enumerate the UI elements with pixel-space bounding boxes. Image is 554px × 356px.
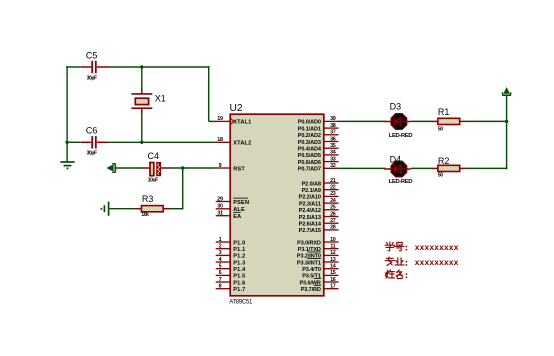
svg-text:P0.2/AD2: P0.2/AD2: [298, 133, 321, 139]
capacitor C5: [81, 50, 109, 73]
pin 37 (P0.2/AD2) of U2: [298, 130, 339, 140]
svg-text:19: 19: [217, 116, 223, 122]
svg-text:P2.6/A14: P2.6/A14: [299, 222, 322, 228]
svg-text:P1.7: P1.7: [233, 287, 245, 293]
pin 34 (P0.5/AD5) of U2: [298, 150, 339, 160]
ground (rotated, left of R3): [101, 202, 108, 216]
pin 27 (P2.6/A14) of U2: [299, 218, 339, 228]
svg-text:U2: U2: [230, 103, 243, 114]
pin 14 (P3.4/T0) of U2: [302, 264, 338, 274]
pin 21 (P2.0/A8) of U2: [302, 178, 339, 188]
svg-text:30: 30: [217, 204, 223, 210]
svg-text:P2.3/A11: P2.3/A11: [299, 201, 321, 207]
LED D3 (LED-RED): [384, 102, 411, 130]
resistor R3: [135, 194, 169, 212]
svg-text:50: 50: [438, 127, 443, 133]
svg-text:P2.7/A15: P2.7/A15: [299, 228, 321, 234]
svg-text:30pF: 30pF: [87, 150, 97, 156]
svg-text:4: 4: [219, 257, 222, 263]
svg-text:12: 12: [330, 250, 336, 256]
junction: R1 row to VCC rail (507,121): [505, 120, 508, 123]
svg-text:R2: R2: [438, 156, 450, 166]
pin 10 (P3.0/RXD) of U2: [297, 237, 338, 247]
svg-text:C6: C6: [86, 125, 98, 135]
ground (below left rail): [60, 162, 74, 168]
svg-text:P1.6: P1.6: [233, 280, 245, 286]
wire: P0.0 to D3: [338, 120, 385, 122]
svg-text:P0.1/AD1: P0.1/AD1: [298, 126, 321, 132]
svg-text:P0.6/AD6: P0.6/AD6: [298, 160, 321, 166]
pin 19 (XTAL1) of U2: [216, 116, 252, 126]
svg-text:P1.2: P1.2: [233, 254, 245, 260]
svg-text:21: 21: [330, 178, 336, 184]
svg-text:xxxxxxxxx: xxxxxxxxx: [415, 257, 459, 267]
crystal X1: [131, 93, 165, 114]
svg-text:R3: R3: [142, 194, 154, 204]
svg-text:30pF: 30pF: [87, 76, 97, 82]
pin 7 (P1.6) of U2: [216, 277, 246, 287]
svg-text:P1.3: P1.3: [233, 260, 245, 266]
junction: RST net to R3 branch (183,168): [181, 166, 184, 169]
pin 17 (P3.7/RD) of U2: [301, 284, 339, 294]
node label: major line (zhuan ye:): [385, 257, 407, 265]
junction: XTAL2 net at crystal branch (142,142): [140, 141, 143, 144]
pin 1 (P1.0) of U2: [216, 237, 246, 247]
node label: name line (xing ming:): [385, 270, 407, 279]
power terminal (left arrow) on C4: [107, 163, 115, 172]
wire: RST branch down to R3: [169, 168, 183, 210]
svg-text:27: 27: [330, 218, 336, 224]
wire: VCC arrow to C4: [115, 167, 144, 169]
pin 33 (P0.6/AD6) of U2: [298, 156, 339, 166]
wire: C6 / XTAL2 net: [67, 141, 216, 143]
wire: left vertical rail x=67: [66, 66, 68, 162]
svg-text:5: 5: [219, 264, 222, 270]
pin 24 (P2.3/A11) of U2: [299, 198, 339, 208]
svg-text:28: 28: [330, 225, 336, 231]
svg-text:17: 17: [330, 284, 336, 290]
svg-text:D3: D3: [390, 102, 402, 112]
wire: R1 to VCC rail: [466, 120, 508, 122]
pin 8 (P1.7) of U2: [216, 284, 246, 294]
svg-text:P3.3/INT1: P3.3/INT1: [297, 260, 321, 266]
pin 22 (P2.1/A9) of U2: [302, 185, 339, 195]
svg-text:RST: RST: [233, 166, 245, 172]
pin 30 (ALE) of U2: [216, 204, 245, 214]
pin 3 (P1.2) of U2: [216, 250, 246, 260]
pin 2 (P1.1) of U2: [216, 244, 246, 254]
pin 31 (EA) of U2: [216, 211, 242, 221]
pin 35 (P0.4/AD4) of U2: [298, 143, 339, 153]
svg-text:P0.3/AD3: P0.3/AD3: [298, 140, 321, 146]
svg-text:P3.7/RD: P3.7/RD: [301, 287, 321, 293]
svg-text:X1: X1: [155, 93, 166, 103]
wire: P0.7 to D4: [338, 167, 385, 169]
pin 18 (XTAL2) of U2: [216, 137, 252, 147]
pin 28 (P2.7/A15) of U2: [299, 225, 339, 235]
svg-text:P2.2/A10: P2.2/A10: [299, 195, 321, 201]
svg-text:P2.5/A13: P2.5/A13: [299, 215, 321, 221]
svg-text:P3.4/T0: P3.4/T0: [302, 267, 321, 273]
svg-text:50: 50: [438, 173, 443, 179]
wire: VCC vertical rail: [506, 95, 508, 169]
svg-text:P0.5/AD5: P0.5/AD5: [298, 153, 321, 159]
pin 4 (P1.3) of U2: [216, 257, 246, 267]
svg-text:31: 31: [217, 211, 223, 217]
svg-text:23: 23: [330, 191, 336, 197]
pin 38 (P0.1/AD1) of U2: [298, 123, 339, 132]
pin 26 (P2.5/A13) of U2: [299, 211, 339, 221]
svg-text:P2.1/A9: P2.1/A9: [302, 188, 321, 194]
wire: D3 to R1: [411, 120, 432, 122]
svg-text:1: 1: [219, 237, 222, 243]
svg-text:35: 35: [330, 143, 336, 149]
svg-text:10k: 10k: [141, 212, 149, 218]
pin 36 (P0.3/AD3) of U2: [298, 136, 339, 146]
svg-text:D4: D4: [390, 154, 402, 164]
svg-text:R1: R1: [438, 107, 450, 117]
svg-text:16: 16: [330, 277, 336, 283]
svg-text:P1.0: P1.0: [233, 240, 245, 246]
LED D4 (LED-RED): [384, 154, 411, 177]
junction: left rail at C6 (67,142): [65, 141, 68, 144]
pin 16 (P3.6/WR) of U2: [299, 277, 338, 287]
junction: crystal top branch (142,67): [140, 65, 143, 68]
wire: D4 to R2: [411, 167, 432, 169]
svg-text:P1.4: P1.4: [233, 267, 246, 273]
svg-text:PSEN: PSEN: [233, 200, 249, 206]
svg-text:10: 10: [330, 237, 336, 243]
svg-text:P0.7/AD7: P0.7/AD7: [298, 167, 321, 173]
pin 12 (P3.2/INT0) of U2: [297, 250, 339, 260]
pin 39 (P0.0/AD0) of U2: [298, 116, 339, 126]
pin 15 (P3.5/T1) of U2: [302, 270, 338, 280]
pin 29 (PSEN) of U2: [216, 196, 250, 206]
svg-text:9: 9: [219, 163, 222, 169]
svg-text:22: 22: [330, 185, 336, 191]
svg-text:10uF: 10uF: [148, 177, 158, 183]
svg-text:6: 6: [219, 270, 222, 276]
pin 6 (P1.5) of U2: [216, 270, 246, 280]
wire: crystal bottom to XTAL2 net: [141, 114, 143, 142]
pin 5 (P1.4) of U2: [216, 264, 246, 274]
svg-text:C5: C5: [86, 50, 98, 60]
svg-text:P3.0/RXD: P3.0/RXD: [297, 240, 321, 246]
svg-text:32: 32: [330, 163, 336, 169]
svg-text:7: 7: [219, 277, 222, 283]
svg-text:EA: EA: [233, 214, 241, 220]
svg-text:P1.5: P1.5: [233, 274, 245, 280]
svg-text:36: 36: [330, 136, 336, 142]
svg-text:P0.0/AD0: P0.0/AD0: [298, 120, 321, 126]
svg-text:XTAL1: XTAL1: [233, 120, 251, 126]
svg-text:14: 14: [330, 264, 336, 270]
svg-text:13: 13: [330, 257, 336, 263]
svg-text:P1.1: P1.1: [233, 247, 245, 253]
svg-text:15: 15: [330, 270, 336, 276]
svg-text:C4: C4: [148, 151, 160, 161]
svg-text:38: 38: [330, 123, 336, 129]
pin 32 (P0.7/AD7) of U2: [298, 163, 339, 173]
pin 13 (P3.3/INT1) of U2: [297, 257, 339, 267]
svg-text:29: 29: [217, 196, 223, 202]
svg-text:33: 33: [330, 156, 336, 162]
svg-text:18: 18: [217, 137, 223, 143]
resistor R2: [432, 156, 466, 171]
wire: R2 to VCC rail corner: [466, 167, 508, 169]
svg-text:3: 3: [219, 250, 222, 256]
svg-text:37: 37: [330, 130, 336, 136]
clock marker on pin XTAL1: [231, 119, 234, 125]
svg-text:LED-RED: LED-RED: [389, 179, 412, 185]
svg-text:24: 24: [330, 198, 336, 204]
capacitor C4 (electrolytic): [143, 151, 169, 176]
resistor R1: [432, 107, 466, 125]
pin 9 (RST) of U2: [216, 163, 246, 173]
wire: C4 to RST pin: [168, 167, 217, 169]
svg-text:P2.0/A8: P2.0/A8: [302, 181, 321, 187]
wire: C5 top net from left vertical to corner above XTAL1: [66, 66, 216, 121]
pin 11 (P3.1/TXD) of U2: [298, 244, 339, 254]
pin 23 (P2.2/A10) of U2: [299, 191, 339, 201]
power terminal (up arrow VCC): [502, 88, 511, 95]
svg-text:xxxxxxxxx: xxxxxxxxx: [415, 242, 459, 252]
op-amp-style IC body: microcontroller U2 AT89C51: [230, 103, 324, 296]
svg-text:P2.4/A12: P2.4/A12: [299, 208, 321, 214]
wire: crystal top branch vertical: [141, 67, 143, 94]
svg-text:8: 8: [219, 284, 222, 290]
wire: ground to R3: [109, 208, 136, 210]
svg-text:XTAL2: XTAL2: [233, 141, 251, 147]
svg-text:34: 34: [330, 150, 336, 156]
svg-text:LED-RED: LED-RED: [389, 133, 412, 139]
pin 25 (P2.4/A12) of U2: [299, 205, 339, 215]
svg-text:11: 11: [330, 244, 335, 250]
svg-text:25: 25: [330, 205, 336, 211]
svg-text:AT89C51: AT89C51: [229, 300, 253, 306]
capacitor C6: [81, 125, 109, 148]
svg-text:P0.4/AD4: P0.4/AD4: [298, 147, 322, 153]
svg-text:26: 26: [330, 211, 336, 217]
node label: student-ID line (xue hao:): [385, 242, 407, 251]
svg-text:2: 2: [219, 244, 222, 250]
svg-text:39: 39: [330, 116, 336, 122]
